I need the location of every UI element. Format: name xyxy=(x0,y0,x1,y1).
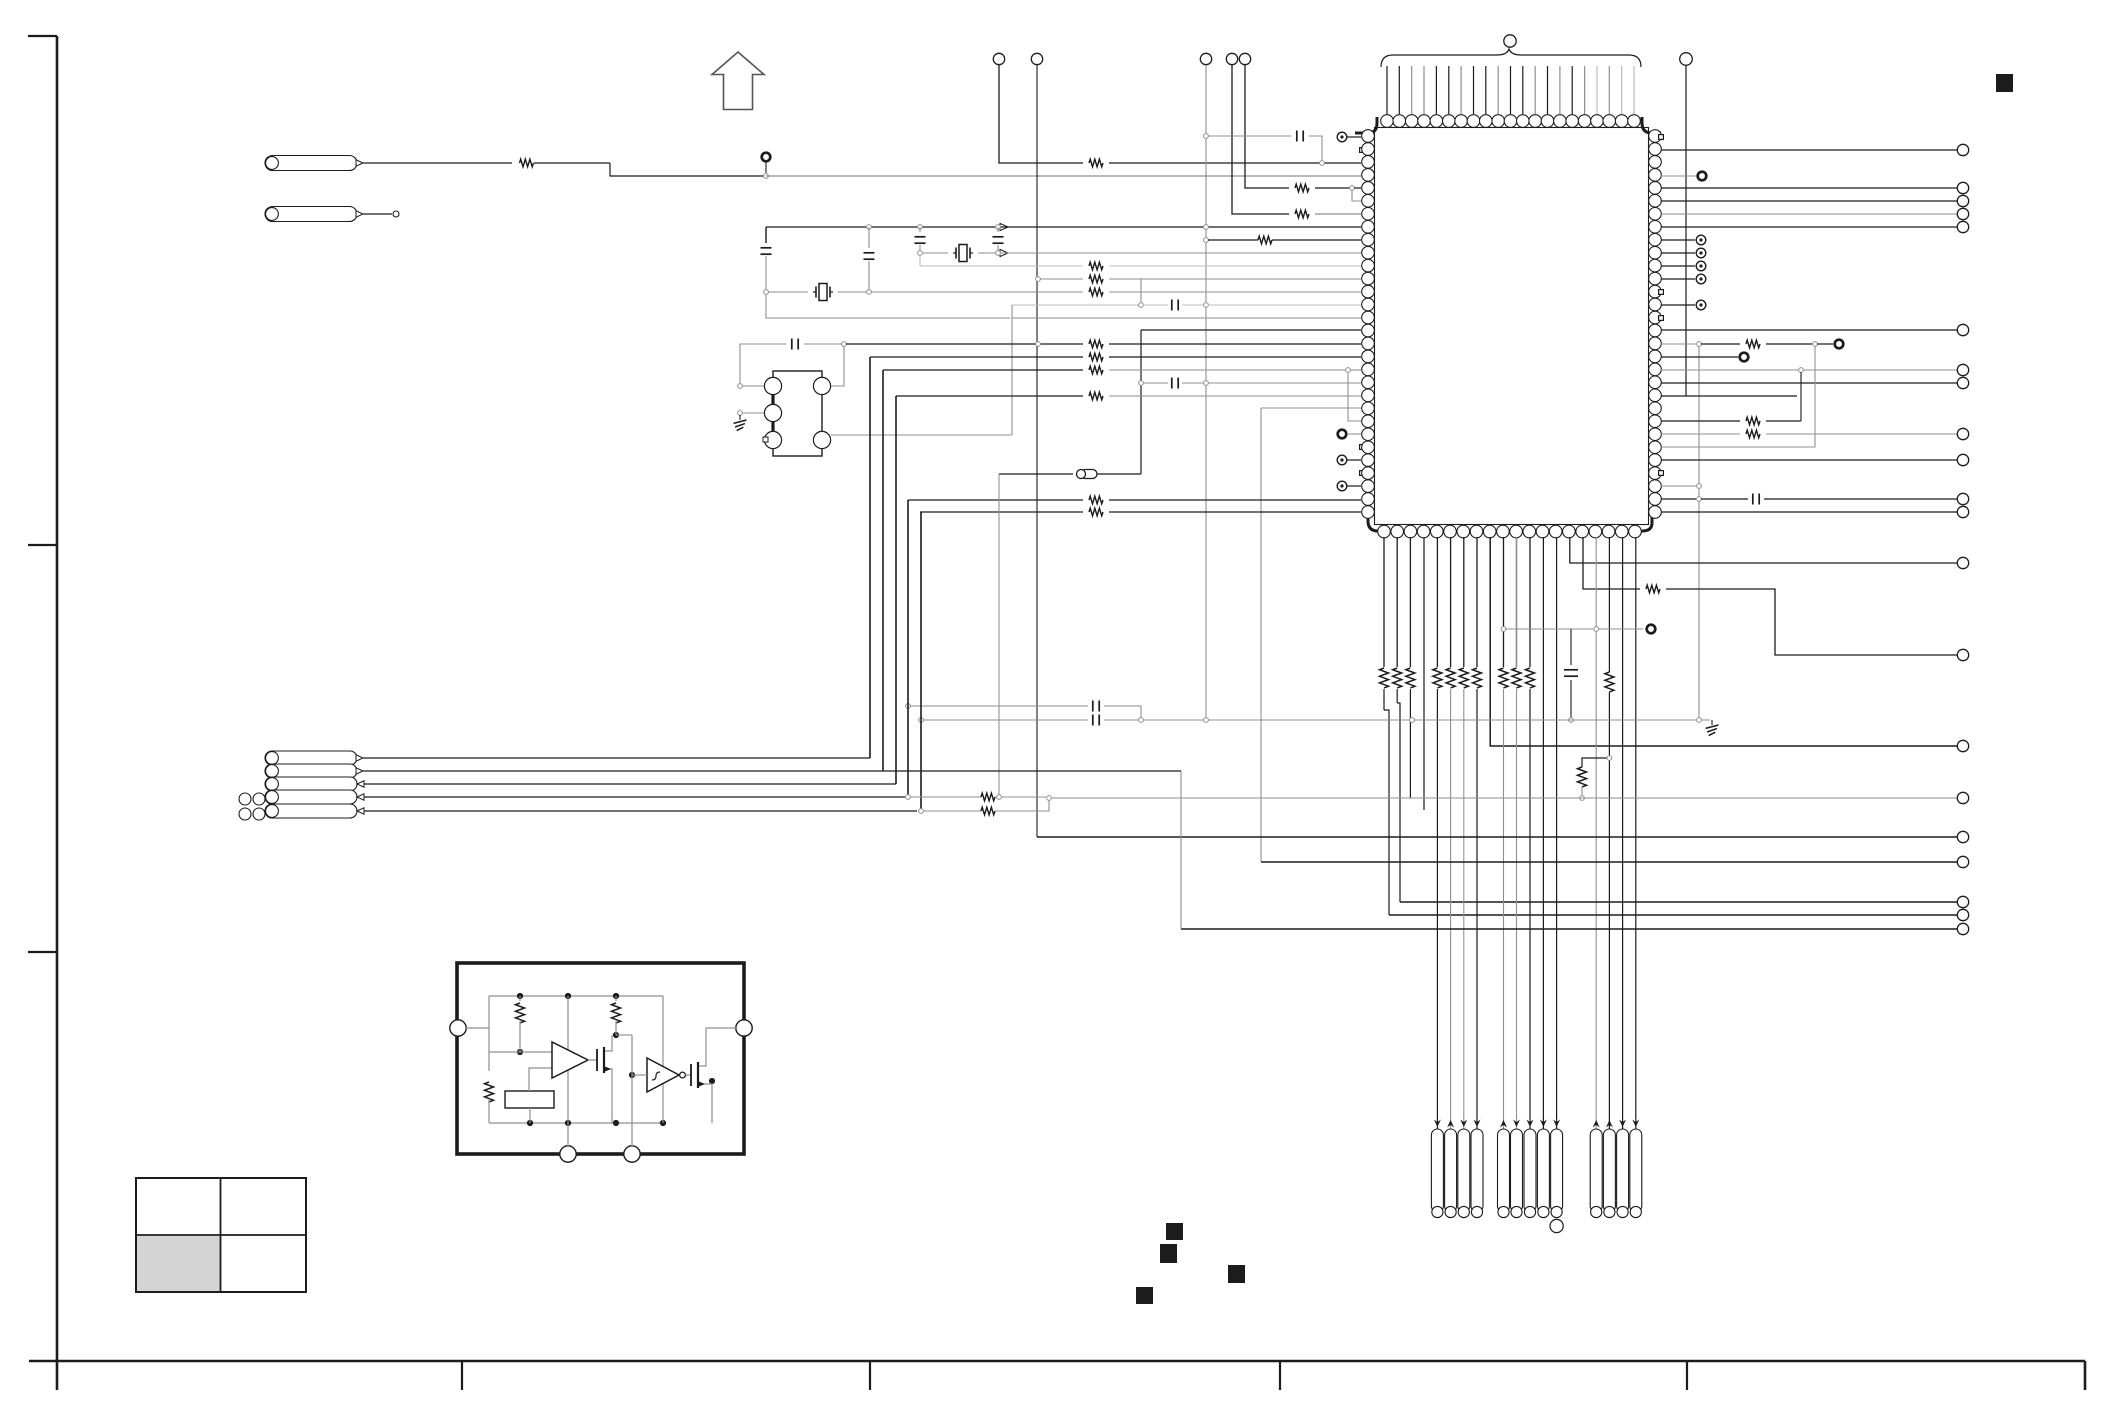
ring terminal pin24 xyxy=(1338,430,1347,439)
black square marker 2 xyxy=(1160,1244,1177,1263)
wire pin18R row344 xyxy=(1661,343,1696,345)
pad square right y318 xyxy=(1659,316,1664,321)
wire pin16B corner row563 xyxy=(1570,537,1957,563)
U2 left vertical xyxy=(488,996,490,1071)
wire pin24R row434 to resistor xyxy=(1661,433,1740,435)
U2 resistor R22 xyxy=(519,996,521,1001)
terminal out y227 xyxy=(1957,221,1968,232)
border frame left vertical xyxy=(56,36,59,1390)
node x1206 y305 xyxy=(1204,303,1209,308)
U2 mid vertical xyxy=(567,996,569,1146)
wires below res group2 xyxy=(1436,689,1438,1205)
wire row929 xyxy=(1181,928,1957,930)
node row227 x869 xyxy=(867,225,872,230)
capacitor C1 xyxy=(1296,131,1298,142)
wire pill row797 xyxy=(363,796,905,798)
node row227 x1206 xyxy=(1204,225,1209,230)
U2 mosfet Q1 xyxy=(588,1059,597,1061)
wire pinR to bullseye y279 xyxy=(1661,278,1695,280)
resistor R5 row292 xyxy=(1089,288,1103,296)
wire row279 xyxy=(1040,278,1083,280)
connector J3 pin 2 xyxy=(1603,1129,1615,1212)
bullseye terminal y240 xyxy=(1696,235,1706,245)
wire bead row west corner xyxy=(999,473,1073,475)
vertical x1012 xyxy=(1011,305,1013,435)
wire row292 to resistor xyxy=(871,291,1083,293)
U2 wire left term xyxy=(466,1027,489,1029)
wire V4 down then right xyxy=(1232,65,1289,214)
cap row383 xyxy=(1143,382,1168,384)
node at x1352 y188 xyxy=(1350,186,1355,191)
connector J2 pin 2 xyxy=(1511,1129,1523,1212)
arrowhead in row811 xyxy=(357,808,364,814)
IC corner TR thick xyxy=(1642,117,1661,133)
terminal out y902 xyxy=(1957,896,1968,907)
aux circle a xyxy=(239,793,251,805)
resistor R20 row797 xyxy=(981,793,995,801)
connector J3 pin 1 xyxy=(1590,1129,1602,1212)
vertical x1141 seg2 xyxy=(1140,330,1142,474)
vertical x740 up xyxy=(740,344,786,384)
resistor array group1 xyxy=(1380,668,1389,688)
wire pin8R to terminal xyxy=(1661,226,1957,228)
crystal block thick left edge xyxy=(771,378,774,449)
wire row318 to pin15 xyxy=(1012,317,1361,319)
U2 left vertical low xyxy=(488,1100,490,1123)
pad circle D xyxy=(813,377,830,394)
node x1038 y279 xyxy=(1036,277,1041,282)
terminal V3 top xyxy=(1200,53,1211,64)
wire P2 stub xyxy=(363,213,392,215)
pad circle A xyxy=(764,377,781,394)
U2 vertical x632 xyxy=(631,1035,633,1146)
wire pin5R to terminal xyxy=(1661,187,1957,189)
node junction at x1322 xyxy=(1320,161,1325,166)
black square marker 4 xyxy=(1136,1287,1153,1304)
wires below res group3 xyxy=(1503,689,1505,1205)
flow arrow row227 xyxy=(1000,223,1008,230)
wire row305 to pin14 xyxy=(1208,304,1361,306)
wire row357 from bundle xyxy=(870,356,1083,358)
terminal out y460 xyxy=(1957,454,1968,465)
wire pill row771 xyxy=(363,770,1181,772)
connector J1 pin 1 xyxy=(1431,1129,1443,1212)
wire pin29R row499 xyxy=(1661,498,1696,500)
pad square pin25b xyxy=(1360,445,1365,450)
wire row330 corner x1141 xyxy=(1141,329,1361,331)
wire R1 to step xyxy=(534,162,610,164)
node x1596 y629 xyxy=(1594,627,1599,632)
capacitor C4 at x920 xyxy=(919,227,921,232)
wire R15 to corner xyxy=(1766,420,1801,422)
connector pin P4 xyxy=(265,764,357,778)
terminal out y862 xyxy=(1957,856,1968,867)
terminal out y214 xyxy=(1957,208,1968,219)
node x921 y811 xyxy=(919,809,924,814)
wire row370 from bundle xyxy=(883,369,1083,371)
node x1206 y240 xyxy=(1204,238,1209,243)
wire pin18B down xyxy=(1595,537,1597,1205)
resistor R3 xyxy=(1295,210,1309,218)
wire node down to padD xyxy=(831,346,844,386)
wire pin26R row460 to terminal xyxy=(1661,459,1957,461)
connector pin P6 xyxy=(265,790,357,804)
wire to IC pin4 (gray) xyxy=(766,175,1361,177)
node on wire at ring xyxy=(764,174,769,179)
node x999 y797 xyxy=(997,795,1002,800)
resistor R21 row811 xyxy=(981,807,995,815)
border tick bottom x870 xyxy=(869,1361,871,1390)
IC corner TL thick xyxy=(1355,117,1377,133)
wire pill row784 xyxy=(363,783,896,785)
wire row279 to pin12 xyxy=(1109,278,1361,280)
wires pins5-8B down xyxy=(1436,537,1438,667)
wire row862 xyxy=(1261,861,1957,863)
node x766 y292 xyxy=(764,290,769,295)
crystal block X3 body xyxy=(773,371,822,456)
wire pin19B down xyxy=(1608,537,1610,672)
wire to cap C1 xyxy=(1208,135,1291,137)
ring terminal y176 xyxy=(1698,172,1707,181)
wire pin1B below res xyxy=(1383,689,1385,710)
terminal out y201 xyxy=(1957,195,1968,206)
capacitor C10 row720 xyxy=(1092,715,1094,726)
wire C9 jog to row720 xyxy=(1104,706,1141,720)
terminal out y434 xyxy=(1957,428,1968,439)
crystal X2 row253 xyxy=(922,252,948,254)
wire R3 to pin7 (gray) xyxy=(1315,213,1361,215)
subcircuit box U2 xyxy=(457,963,744,1154)
pad square right y473 xyxy=(1659,471,1664,476)
wire pin20R row383 to terminal xyxy=(1661,382,1957,384)
node x1348 y370 xyxy=(1346,368,1351,373)
pad square right y292 xyxy=(1659,290,1664,295)
U2 resistor R24 xyxy=(615,996,617,1001)
wire pin7R to terminal (gray) xyxy=(1661,213,1957,215)
U2 delay riser xyxy=(529,1068,552,1091)
wire row240 to pin9 xyxy=(1272,239,1361,241)
resistor R19 vertical xyxy=(1578,767,1587,787)
capacitor C7 row499 xyxy=(1752,494,1754,505)
U2 left terminal xyxy=(450,1020,466,1036)
aux circle b xyxy=(253,793,265,805)
aux circle c xyxy=(239,808,251,820)
node x1206 y136 xyxy=(1204,134,1209,139)
connector pin P1 xyxy=(265,156,357,171)
ground symbol GND1 xyxy=(739,415,741,420)
wire C10 east xyxy=(1104,719,1204,721)
node x1609 y758 xyxy=(1607,756,1612,761)
node x1206 y383 xyxy=(1204,381,1209,386)
crystal X1 row292 xyxy=(768,291,808,293)
black square marker 1 xyxy=(1166,1223,1183,1240)
terminal V6 top-right xyxy=(1680,53,1693,66)
extra circle below J2 xyxy=(1550,1219,1563,1232)
node row227 x998 xyxy=(996,225,1001,230)
capacitor C5 at x998 xyxy=(997,227,999,232)
wire pin19B down2 xyxy=(1608,692,1610,1205)
node x920 y253 xyxy=(918,251,923,256)
wire R21 jog up xyxy=(995,800,1049,811)
ring terminal y357 xyxy=(1740,353,1749,362)
terminal ring T1 xyxy=(762,153,771,162)
terminal out y837 xyxy=(1957,831,1968,842)
branch to pin6 xyxy=(1352,190,1361,201)
terminal V5 top xyxy=(1239,53,1250,64)
bundle vertical x908 xyxy=(907,500,909,797)
node x1801 y370 xyxy=(1799,368,1804,373)
wire node to pin19 xyxy=(1350,369,1361,371)
connector J1 pin 4 xyxy=(1471,1129,1483,1212)
table horizontal divider xyxy=(136,1234,306,1236)
wire pin11B gray down xyxy=(1516,537,1518,667)
arrowhead out row758 xyxy=(356,755,363,761)
block arrow pointing up xyxy=(712,52,764,110)
wire pill row811 xyxy=(363,810,917,812)
node x1141 y383 xyxy=(1139,381,1144,386)
node x998 y253 xyxy=(996,251,1001,256)
wire row811 to resistor xyxy=(923,810,981,812)
connector pin P7 xyxy=(265,804,357,818)
node x740 y386 xyxy=(738,384,743,389)
black square marker 3 xyxy=(1228,1265,1245,1283)
wire padE row435 xyxy=(831,434,1012,436)
connector J2 pin 1 xyxy=(1498,1129,1510,1212)
wire V1 down xyxy=(999,65,1083,163)
bullseye pin27 xyxy=(1337,481,1347,491)
arrowhead out row771 xyxy=(356,768,363,774)
IC corner BR thick xyxy=(1636,517,1652,531)
connector J2 pin 4 xyxy=(1537,1129,1549,1212)
wire row370 to node xyxy=(1109,369,1345,371)
capacitor C6 row344 xyxy=(791,339,793,350)
resistor R8 row344 xyxy=(1089,340,1103,348)
branch x920 row266 xyxy=(919,255,921,266)
terminal out y655 xyxy=(1957,649,1968,660)
resistor R2 xyxy=(1089,159,1103,167)
wire P1 to R1 xyxy=(363,162,512,164)
wire row227 box top edge xyxy=(766,226,1361,228)
wire V3 down x1206 (gray) xyxy=(1205,65,1207,720)
wire V5 down then right xyxy=(1245,65,1289,188)
U2 amplifier A1 xyxy=(552,1042,588,1078)
capacitor C2 in box edge xyxy=(761,247,772,249)
box left edge to corner xyxy=(766,294,1010,318)
wire pin16R to terminal xyxy=(1661,329,1957,331)
vertical x1261 xyxy=(1260,408,1262,862)
wire pin9B down corner row746 xyxy=(1490,537,1957,746)
wire pin4B down xyxy=(1423,537,1425,810)
terminal out y188 xyxy=(1957,182,1968,193)
wire row500 to pin29 xyxy=(1109,499,1361,501)
node x1815 y344 xyxy=(1813,342,1818,347)
capacitor C8 vertical xyxy=(1570,629,1572,665)
connector J1 pin 2 xyxy=(1445,1129,1457,1212)
node x1038 y344 xyxy=(1036,342,1041,347)
terminal out y929 xyxy=(1957,923,1968,934)
branch row421 xyxy=(1348,372,1361,421)
jog pin2B to x1400 xyxy=(1397,703,1400,902)
wire row500 from bundle xyxy=(908,499,1083,501)
terminal out y499 xyxy=(1957,493,1968,504)
node x1571 y720 xyxy=(1569,718,1574,723)
terminal out y330 xyxy=(1957,324,1968,335)
wire V6 down x1686 xyxy=(1685,65,1687,396)
resistor R6 row266 xyxy=(1089,262,1103,270)
table cell fill gray xyxy=(137,1236,221,1291)
wire y629 net xyxy=(1505,628,1593,630)
wire pin14B down xyxy=(1542,537,1544,1205)
U2 top rail xyxy=(489,995,663,997)
node x740 y413 xyxy=(738,411,743,416)
wire pin21B down xyxy=(1635,537,1637,1205)
wire row902 xyxy=(1400,901,1957,903)
wire C7 to terminal xyxy=(1764,498,1957,500)
capacitor C3 at x869 xyxy=(868,227,870,248)
capacitor C9 row706 xyxy=(1092,701,1094,712)
wire R16 to terminal (gray) xyxy=(1766,433,1957,435)
wire R20 to node xyxy=(995,796,1046,798)
wire pin2R to terminal xyxy=(1661,149,1957,151)
node x1699 y499 xyxy=(1697,497,1702,502)
wire pin3B down xyxy=(1409,537,1411,667)
ground symbol GND2 xyxy=(1711,720,1713,725)
U2 amp input wire xyxy=(489,1051,552,1053)
wire ground row720 xyxy=(1208,719,1710,721)
wire R19 to node xyxy=(1581,787,1583,795)
resistor R15 row421R xyxy=(1746,417,1760,425)
pad circle E xyxy=(813,431,830,448)
U2 delay element xyxy=(505,1091,554,1108)
terminal out y798 xyxy=(1957,792,1968,803)
U2 bottom terminal 1 xyxy=(560,1146,576,1162)
terminal out y746 xyxy=(1957,740,1968,751)
resistor R17 row589 xyxy=(1646,585,1660,593)
node x1412 y720 xyxy=(1410,718,1415,723)
arrowhead in row784 xyxy=(357,781,364,787)
terminal out y512 xyxy=(1957,506,1968,517)
wire row357 to pin18 xyxy=(1109,356,1361,358)
table frame xyxy=(136,1178,306,1292)
aux circle d xyxy=(253,808,265,820)
resistor R13 row512 xyxy=(1089,508,1103,516)
wire pin2B below res xyxy=(1396,689,1398,703)
wire row253 to pin10 xyxy=(1000,252,1361,254)
wire pinR to bullseye y240 xyxy=(1661,239,1695,241)
U2 junction dots xyxy=(517,993,523,999)
node x1582 y798 xyxy=(1580,796,1585,801)
bullseye terminal y266 xyxy=(1696,261,1706,271)
IC corner BL thick xyxy=(1368,517,1384,531)
vertical x1699 to ground row xyxy=(1698,346,1700,720)
wire pinR to bullseye y266 xyxy=(1661,265,1695,267)
wire R2 to node xyxy=(1109,162,1361,164)
U2 bottom rail xyxy=(489,1122,663,1124)
resistor R25 row240 xyxy=(1258,236,1272,244)
resistor R1 xyxy=(520,159,534,167)
node x1206 y720b xyxy=(1204,718,1209,723)
terminal out y150 xyxy=(1957,144,1968,155)
bullseye terminal y279 xyxy=(1696,274,1706,284)
resistor R16 row434R xyxy=(1746,430,1760,438)
wire row305 from x1012 xyxy=(1012,304,1139,306)
terminal V1 top xyxy=(993,53,1004,64)
wire pill row758 xyxy=(363,757,870,759)
terminal above brace xyxy=(1504,35,1516,47)
ring terminal y629 xyxy=(1647,625,1656,634)
border tick bottom x1280 xyxy=(1279,1361,1281,1390)
resistor R14 row344R xyxy=(1746,340,1760,348)
border tick left mid1 xyxy=(28,544,57,546)
border tick bottom x1687 xyxy=(1686,1361,1688,1390)
terminal out y915 xyxy=(1957,909,1968,920)
wire pin30R row512 to terminal xyxy=(1661,511,1957,513)
U2 resistor R23 xyxy=(485,1082,494,1102)
connector pin P2 xyxy=(265,207,357,222)
wire row797 to resistor xyxy=(910,796,981,798)
wire row266 xyxy=(920,265,1083,267)
node x1503 y629 xyxy=(1501,627,1506,632)
connector pin P5 xyxy=(265,777,357,791)
bullseye terminal y305 xyxy=(1696,300,1706,310)
pad square pin2 xyxy=(1360,148,1365,153)
node row227 x920 xyxy=(918,225,923,230)
wire row915 xyxy=(1389,914,1957,916)
ring terminal y344 xyxy=(1835,340,1844,349)
table vertical divider xyxy=(220,1178,222,1292)
bullseye terminal y253 xyxy=(1696,248,1706,258)
connector J2 pin 3 xyxy=(1524,1129,1536,1212)
pad mark square xyxy=(763,437,768,442)
node x921 y720 xyxy=(919,718,924,723)
wire row512 from bundle xyxy=(920,511,1083,513)
U2 mosfet Q2 xyxy=(686,1074,692,1076)
black square marker top-right xyxy=(1996,74,2013,92)
wire pin4R to ring xyxy=(1661,175,1697,177)
wire row344 east xyxy=(846,343,1083,345)
IC bottom pin row (20 pins) xyxy=(1378,525,1391,538)
wire row512 to pin30 xyxy=(1109,511,1361,513)
U2 right rail vertical xyxy=(662,996,664,1123)
wire pinR to bullseye y253 xyxy=(1661,252,1695,254)
wire to resistor xyxy=(1701,343,1740,345)
open end node xyxy=(393,211,399,217)
wire row720 to cap xyxy=(923,719,1088,721)
wire node to pin5 xyxy=(1354,187,1361,189)
bullseye terminal pin1 xyxy=(1337,132,1347,142)
box left edge upper with cap xyxy=(765,227,767,243)
node x1699 y720 xyxy=(1697,718,1702,723)
wire+cap row305 xyxy=(1143,304,1168,306)
wire bead to riser xyxy=(1097,473,1141,475)
resistor R4 xyxy=(1295,184,1309,192)
wire pin21R row396 xyxy=(1661,395,1797,397)
node x1699 y486 xyxy=(1697,484,1702,489)
resistor array group2 xyxy=(1433,668,1442,688)
wire to cap C7 xyxy=(1701,498,1748,500)
connector J3 pin 4 xyxy=(1630,1129,1642,1212)
flow arrow row253 xyxy=(1000,249,1008,256)
node x908 y797 xyxy=(906,795,911,800)
bundle vertical x870 xyxy=(869,357,871,758)
bundle vertical x921 xyxy=(920,512,922,811)
IC top pin row (21 pins) xyxy=(1381,115,1394,128)
border tick bottom x462 xyxy=(461,1361,463,1390)
node x908 y706 xyxy=(906,704,911,709)
wire padB to node xyxy=(742,412,764,414)
vertical x1141 seg1 xyxy=(1140,279,1142,303)
pad circle B xyxy=(764,404,781,421)
